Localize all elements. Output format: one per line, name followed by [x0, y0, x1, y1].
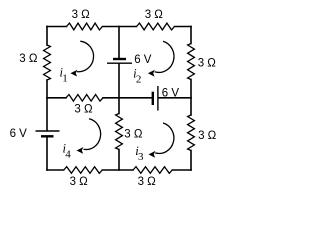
- wire: R9 to bottom-right corner: [172, 169, 191, 171]
- wire: R4 to right-middle node: [190, 80, 192, 116]
- resistor R2 (3 ohm, top-right branch): [137, 23, 175, 30]
- battery V2 positive plate: [107, 62, 132, 64]
- wire: top-left corner down to R3: [46, 27, 48, 46]
- wire: R7 through center node to V3: [103, 97, 152, 99]
- mesh current i1 arrow arc: [77, 41, 94, 72]
- svg-text:3 Ω: 3 Ω: [72, 9, 91, 21]
- mesh current i4 arrow arc: [84, 119, 101, 150]
- svg-text:3 Ω: 3 Ω: [138, 176, 157, 188]
- svg-text:3 Ω: 3 Ω: [70, 176, 89, 188]
- wire: bottom-left corner to R8: [47, 169, 64, 171]
- svg-text:3 Ω: 3 Ω: [124, 129, 143, 141]
- battery V1 (6 V, left branch) positive plate: [36, 130, 60, 132]
- mesh current i2 arrowhead: [148, 70, 155, 77]
- resistor R9 (3 ohm, bottom-right branch): [133, 167, 172, 174]
- wire: center node down to R6: [118, 98, 120, 114]
- svg-text:3 Ω: 3 Ω: [145, 9, 164, 21]
- svg-text:i1: i1: [60, 66, 68, 85]
- wire: top-right corner down to R4: [190, 27, 192, 44]
- svg-text:i4: i4: [63, 142, 72, 161]
- svg-text:6 V: 6 V: [134, 54, 152, 66]
- wire: top-middle node down to V2: [118, 27, 120, 59]
- svg-text:i2: i2: [133, 66, 141, 85]
- mesh current i4 arrowhead: [77, 147, 84, 154]
- battery V3 (6 V, middle-right branch) negative plate: [152, 92, 154, 105]
- resistor R8 (3 ohm, bottom-left branch): [64, 167, 103, 174]
- wire: left-middle node to R7: [47, 97, 66, 99]
- battery V1 negative plate: [41, 135, 54, 137]
- svg-text:3 Ω: 3 Ω: [74, 104, 93, 116]
- resistor R4 (3 ohm, right upper branch): [188, 44, 195, 80]
- svg-text:6 V: 6 V: [10, 128, 28, 140]
- svg-text:3 Ω: 3 Ω: [19, 53, 38, 65]
- wire: R3 to left-middle node: [46, 80, 48, 131]
- wire: V1 to bottom-left corner: [46, 137, 48, 170]
- wire: V3 to right-middle node: [159, 97, 191, 99]
- wire: R8 to bottom-middle node: [102, 169, 133, 171]
- svg-text:3 Ω: 3 Ω: [198, 130, 217, 142]
- wire: V2 to center node: [118, 64, 120, 98]
- resistor R5 (3 ohm, right lower branch): [188, 115, 195, 151]
- wire: top-left node to R1: [47, 26, 67, 28]
- svg-text:i3: i3: [135, 144, 144, 163]
- mesh current i2 arrow arc: [155, 41, 174, 72]
- battery V3 positive plate: [157, 86, 159, 111]
- resistor R6 (3 ohm, center lower branch): [116, 114, 123, 150]
- resistor R3 (3 ohm, left branch): [44, 45, 51, 80]
- mesh current i3 arrow arc: [155, 123, 174, 153]
- wire: R2 to top-right corner: [175, 26, 192, 28]
- resistor R7 (3 ohm, middle-left branch): [66, 95, 103, 102]
- wire: R5 to bottom-right corner: [190, 151, 192, 171]
- battery V2 (6 V, center upper branch) negative plate: [113, 58, 126, 60]
- mesh current i1 arrowhead: [70, 70, 77, 77]
- svg-text:3 Ω: 3 Ω: [198, 57, 217, 69]
- mesh current i3 arrowhead: [149, 151, 156, 158]
- resistor R1 (3 ohm, top-left branch): [67, 23, 103, 30]
- wire: R1 to top-middle node: [102, 26, 136, 28]
- wire: R6 to bottom-middle node: [118, 150, 120, 171]
